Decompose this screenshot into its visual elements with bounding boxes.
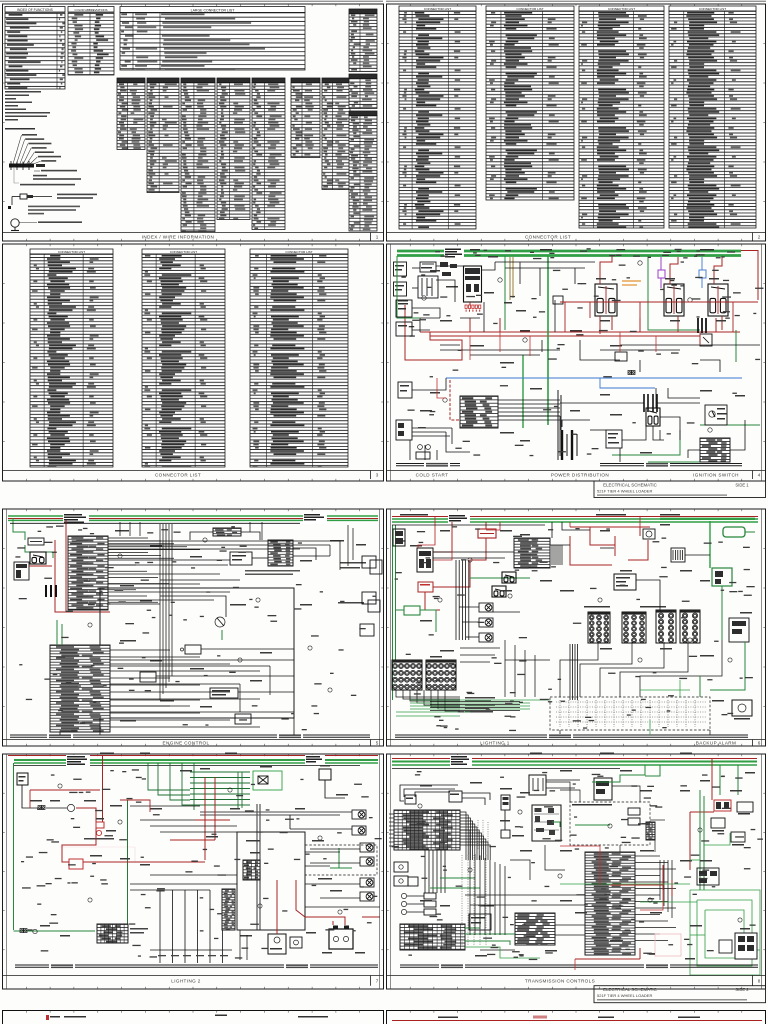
sheet6 extra red loops [418, 517, 640, 560]
connector list table 7 title [250, 249, 348, 254]
dark bundle right of flasher [552, 545, 562, 565]
green wire into dashed box [575, 824, 610, 826]
multi-pin strip top [213, 528, 241, 536]
wire table column 1 body [117, 83, 145, 150]
sheet number box sheet 1 [370, 233, 372, 242]
sheet8 extra green runs [465, 833, 730, 958]
svg-text:CONNECTOR LIST: CONNECTOR LIST [170, 250, 197, 254]
svg-text:CONNECTOR LIST: CONNECTOR LIST [58, 250, 85, 254]
svg-text:7: 7 [376, 978, 379, 983]
relay K3 [708, 284, 728, 316]
svg-text:CONNECTOR LIST: CONNECTOR LIST [699, 7, 726, 11]
sheet border sheet 3 connector list [3, 244, 384, 481]
wire table column 5 body [252, 83, 285, 230]
component box r4 [235, 714, 251, 724]
orange jumper wires [622, 280, 641, 282]
bundle label stack [465, 697, 495, 713]
green bright segment right [660, 518, 755, 520]
connector list table 1 body [399, 11, 476, 229]
red wires relay K1 [600, 256, 612, 284]
relay r6a [502, 572, 516, 583]
svg-text:1: 1 [376, 234, 379, 239]
svg-text:521F TIER 4 WHEEL LOADER: 521F TIER 4 WHEEL LOADER [597, 489, 652, 494]
connector list table 5 title [30, 249, 113, 254]
top-left wire loop pairs sheet8 [400, 785, 490, 805]
right wire table 1 body [349, 14, 377, 72]
red stub to left connector [29, 565, 52, 567]
right stack component [729, 618, 749, 642]
sheet4 mid-left connector boxes [396, 300, 412, 317]
trunk green lower sheet5 [8, 519, 378, 521]
purple component [658, 270, 665, 278]
long wires to box edge [156, 649, 294, 718]
wires out of ECM A right [108, 538, 200, 602]
trunk green double sheet8 [392, 761, 757, 763]
sheet5 trunk drop wires [120, 522, 262, 540]
trunk red sheet7 [8, 755, 378, 757]
connector pair c [628, 371, 635, 375]
svg-text:ENGINE CONTROL: ENGINE CONTROL [163, 740, 210, 745]
capacitor bank symbol [46, 585, 56, 597]
left pin bank B [426, 660, 456, 690]
red vertical 663 [662, 865, 664, 890]
page top edge line [0, 0, 383, 2]
svg-text:SIDE 1: SIDE 1 [735, 483, 749, 488]
sheet8 extra red runs [560, 846, 663, 970]
connector circles column sheet8 [401, 893, 406, 898]
trunk red sheet6 [392, 516, 758, 518]
sheet6 green bottom runs [396, 680, 690, 735]
sheet5 extended ECM-A wires right [108, 541, 340, 600]
striped block sheet8 [400, 924, 465, 950]
bottom sheets ruler ticks [26, 1011, 742, 1013]
sensor symbol right 1 [370, 560, 382, 574]
sheet6 tiny text scatter [395, 526, 755, 731]
table large connector list title [120, 7, 305, 13]
transmission grid matrix [394, 810, 460, 850]
sheet4 extra black wires upper mid [412, 262, 595, 302]
lamp 7a [352, 810, 366, 819]
trunk red sheet8 [392, 758, 757, 760]
green jumper in assembly [552, 822, 560, 827]
wire mesh center [412, 300, 745, 458]
backup alarm component [732, 700, 752, 716]
cold start main connector [464, 266, 482, 302]
staircase bundle sheet8 [460, 812, 490, 860]
connector list table 4 title [669, 6, 756, 11]
cabin panel description title [5, 128, 35, 130]
wire table column 4 header [217, 78, 250, 83]
green component box right [712, 568, 732, 586]
title block side 2 [594, 986, 766, 1003]
red verticals mid sheet7 [204, 777, 206, 860]
footer bar sheet 4 [387, 470, 766, 472]
small boxes in dashed box [628, 808, 640, 815]
wire bundle right of ECU [635, 856, 676, 941]
table large connector list body [120, 13, 305, 71]
green loop box sheet7 [253, 771, 282, 790]
green left verticals sheet6 [392, 525, 394, 700]
buzzer component [643, 529, 655, 539]
right small box sheet8 [719, 940, 732, 953]
ECM block C [50, 645, 110, 732]
trunk label block [444, 248, 464, 258]
connector list table 5 body [30, 254, 113, 467]
sheet4 green feed left [397, 256, 420, 318]
green drop bundle right sheet7 [148, 763, 194, 810]
sheet6 extra top wires [433, 522, 710, 610]
red risers ECM A [65, 536, 67, 612]
relay circle 7 [67, 804, 74, 811]
red relay sheet7 [69, 859, 83, 869]
component reference circles scattered [58, 538, 742, 922]
cab harness big box sheet7 [237, 832, 305, 930]
sheet8 left fan wires [389, 814, 394, 846]
fuse holder cluster [420, 262, 436, 272]
connector leader labels [34, 170, 40, 172]
svg-text:4: 4 [758, 472, 761, 477]
footer bar sheet 1 [3, 232, 384, 234]
svg-text:LIGHTING 2: LIGHTING 2 [171, 978, 201, 983]
sheet border sheet 6 lighting 1 [387, 509, 766, 746]
wires lamps to bus [459, 607, 520, 637]
ignition switch contact block [700, 438, 730, 462]
sheet5 sub-trunk black line [10, 522, 300, 524]
inner margin lines schematic sheets [7, 244, 762, 989]
ground bus right [600, 463, 742, 465]
dotted wires inside harness box [560, 700, 695, 727]
misc short stubs bottom [410, 430, 700, 462]
fuse F1 [28, 538, 44, 545]
wires joining banks to harness [560, 640, 722, 735]
pink outline box sheet8 [655, 934, 681, 956]
blue component [699, 270, 706, 278]
mid component cluster wires [108, 532, 330, 617]
lamp L1 [479, 603, 493, 612]
trunk labels sheet6 [448, 514, 470, 524]
diode block [700, 334, 712, 346]
sheet number box sheet 6 [752, 740, 754, 747]
red horizontal top of ECU [610, 884, 663, 886]
svg-text:3: 3 [376, 472, 379, 477]
switch circle component [215, 617, 225, 627]
bottom left sheet content marks [50, 1015, 328, 1018]
component box r1 [185, 645, 201, 654]
green left vertical sheet7 [13, 763, 15, 930]
svg-text:8: 8 [758, 978, 761, 983]
cabin panel connector symbol [9, 164, 34, 168]
red pin row under connector [465, 305, 481, 308]
trunk labels sheet7 [66, 755, 90, 766]
trunk labels sheet8 [450, 755, 472, 767]
wire table column 3 header [181, 78, 215, 83]
red wires relay sheet7 [62, 852, 69, 862]
red wires relay K2 [670, 257, 678, 284]
footer bar sheet 8 [387, 975, 766, 977]
green risers to block C [56, 620, 58, 645]
sheet5 bottom extra wires [110, 660, 294, 712]
green horizontals sheet8 left [440, 877, 475, 879]
text rows under connector B [245, 570, 300, 575]
gray double bundle [257, 804, 260, 930]
trunk green upper sheet6 [392, 518, 758, 520]
components right of ECU [697, 868, 719, 885]
footer bar sheet 3 [3, 470, 384, 472]
sheet4 red secondary bus right [560, 302, 758, 332]
wire table column 6 header [291, 78, 320, 83]
scatter component b [615, 352, 627, 361]
vertical bundle center sheet6 [570, 644, 578, 700]
sheet7 upper-left red additions [30, 790, 150, 812]
sheet number box sheet 4 [752, 471, 754, 480]
green wires right side down [710, 642, 745, 690]
connector 8a [405, 795, 416, 804]
bottom-left components sheet8 [394, 862, 408, 872]
right wire table 1 header [349, 9, 377, 14]
connector list table 3 title [579, 6, 664, 11]
right wire table 2 header [349, 74, 377, 79]
capacitor pair symbol [644, 394, 657, 412]
lamp connector bank D [680, 610, 700, 643]
flasher component sheet7 [268, 934, 286, 954]
svg-text:521F TIER 4 WHEEL LOADER: 521F TIER 4 WHEEL LOADER [597, 993, 652, 998]
svg-text:POWER DISTRIBUTION: POWER DISTRIBUTION [551, 472, 609, 477]
sheet4 mid horizontal runs [420, 302, 760, 355]
wire table column 2 header [147, 78, 179, 83]
svg-text:TRANSMISSION CONTROLS: TRANSMISSION CONTROLS [525, 978, 595, 983]
red long vertical sheet8 [690, 811, 714, 813]
wire table column 7 body [322, 83, 350, 190]
bottom partial sheet left border [3, 1011, 384, 1024]
left pin bank A [392, 660, 422, 690]
component mid [230, 552, 252, 565]
fan-out wires below left banks [396, 690, 460, 711]
connector list table 2 body [486, 11, 574, 200]
svg-text:CONNECTOR LIST: CONNECTOR LIST [608, 7, 635, 11]
lamp 7e [360, 878, 374, 887]
sheet4 tiny text scatter [401, 248, 763, 456]
svg-text:2: 2 [758, 234, 761, 239]
red jog sheet7 bottom [296, 880, 305, 917]
bottom drop labels [158, 955, 228, 956]
sheet7 bottom collector [150, 907, 380, 960]
flasher module block [514, 538, 550, 568]
right components sheet8 [737, 802, 753, 812]
connector list table 6 body [142, 254, 225, 467]
svg-text:CONNECTOR LIST: CONNECTOR LIST [285, 250, 312, 254]
connector block B [268, 540, 293, 566]
sheet5 right vertical bundle [330, 525, 353, 570]
sheet8 sub-trunk black line [392, 768, 620, 770]
lamp connector bank C [656, 610, 676, 643]
component engine stop [606, 430, 622, 448]
ignition blue wire [446, 377, 742, 379]
sheet number box sheet 7 [370, 976, 372, 986]
relay K4 [646, 408, 660, 426]
wire table column 3 body [181, 83, 215, 232]
wires from cluster to right [498, 400, 560, 420]
tiny labels sheet6 [410, 524, 752, 702]
green bundle rows mid sheet6 [410, 700, 530, 709]
stub risers to ground sheet5 [60, 718, 294, 735]
trunk green thick sheet7 [14, 759, 378, 761]
tiny labels sheet5 [115, 530, 366, 722]
instrument cluster block [460, 396, 498, 428]
green bottom left run [14, 930, 96, 932]
connector pair bottom left [20, 929, 27, 933]
red lower wires sheet8 [575, 958, 640, 960]
relay K2 [664, 284, 684, 316]
olive wires pair [509, 257, 511, 300]
connector list table 2 title [486, 6, 574, 11]
wire table column 4 body [217, 83, 250, 220]
svg-text:IGNITION SWITCH: IGNITION SWITCH [693, 472, 739, 477]
right wire table 3 body [349, 116, 377, 232]
dashed component box sheet8 [570, 802, 650, 845]
green verticals right sheet8 [699, 790, 701, 890]
component in green box [258, 776, 268, 784]
wire table column 5 header [252, 78, 285, 83]
footer bar sheet 6 [387, 739, 766, 741]
red risers to bus [469, 318, 471, 332]
sheet number box sheet 3 [370, 471, 372, 480]
sheet4 battery feed verticals [558, 390, 561, 460]
red fuse small [96, 822, 104, 828]
sheet4 dark bar trio [698, 318, 706, 333]
green right vertical sheet6 [709, 521, 711, 568]
sealed pigtail connector symbol [20, 194, 27, 199]
sheet4 component ref circles [422, 296, 426, 300]
wire table column 1 header [117, 78, 145, 83]
tiny labels sheet8 [420, 770, 755, 960]
green vertical feed 1 [504, 256, 506, 330]
sheet border sheet 1 index/wire information [3, 4, 384, 241]
sheet8 dotted mid bundles [462, 855, 486, 945]
sheet7 center extra wires [130, 806, 340, 890]
bottom right sheet labels [438, 1017, 700, 1019]
sheet5 tiny text scatter [15, 526, 376, 732]
black box right sheet6 [614, 574, 636, 590]
left connector block sheet6 [417, 548, 433, 572]
connector list table 1 title [399, 6, 476, 11]
dashed accessory box sheet7 [305, 845, 377, 875]
svg-text:ELECTRICAL SCHEMATIC: ELECTRICAL SCHEMATIC [603, 987, 657, 992]
wire table column 7 header [322, 78, 350, 83]
table color abbreviations body [68, 13, 114, 75]
component box r2 [140, 672, 156, 682]
vertical bundle mid sheet5 [160, 524, 172, 700]
normally grounded component symbol [11, 219, 19, 227]
relay r6b [492, 586, 506, 597]
sensor symbol right 2 [368, 600, 380, 612]
lamp connector bank A [588, 612, 610, 643]
alternator green box [723, 527, 745, 537]
mid block a sheet8 [515, 913, 555, 945]
svg-text:5: 5 [376, 740, 379, 745]
green ladder mid sheet7 [190, 772, 250, 808]
title block side 1 [594, 481, 766, 498]
left connector C2 [396, 420, 412, 440]
sheet4 bottom-left small parts [418, 445, 423, 450]
sheet border sheet 2 connector list [387, 4, 766, 241]
green vertical in dashed box [338, 848, 340, 868]
sheet border sheet 4 power distribution [387, 244, 766, 481]
red drop right sheet8 [711, 758, 713, 800]
ground bus sheet6 [395, 734, 748, 736]
green path from trunk right sheet8 [592, 765, 645, 782]
svg-text:INDEX / WIRE INFORMATION: INDEX / WIRE INFORMATION [142, 234, 215, 239]
wire table column 2 body [147, 83, 179, 193]
trunk red sheet5 [8, 518, 378, 520]
lamp 7d [360, 857, 374, 866]
sheet number box sheet 5 [370, 740, 372, 747]
black bundle rows mid sheet6 [430, 702, 520, 711]
connector list table 3 body [579, 11, 664, 228]
component box r3 [210, 688, 238, 698]
red dashed switched feed [450, 380, 460, 420]
svg-text:CONNECTOR LIST: CONNECTOR LIST [424, 7, 451, 11]
relay left sheet5 [30, 552, 46, 564]
red loop left [405, 305, 462, 360]
vertical connector strip sheet7 [222, 889, 235, 930]
trunk label blocks sheet5 [63, 513, 89, 524]
table index of functions body [5, 13, 65, 89]
connector list table 4 body [669, 11, 756, 228]
pin strip sheet8 [646, 822, 655, 840]
sheet6 center vertical web [460, 640, 550, 697]
connector list table 6 title [142, 249, 225, 254]
svg-text:INDEX OF FUNCTIONS: INDEX OF FUNCTIONS [17, 8, 54, 12]
trunk green upper sheet5 [8, 515, 378, 517]
ignition switch symbol [705, 405, 727, 425]
assembly block sheet8 [532, 805, 561, 841]
green feed left [13, 518, 25, 540]
green vertical feed 3 [648, 256, 700, 330]
sheet border sheet 8 transmission controls [387, 754, 766, 989]
bottom right sheet red trunk [392, 1020, 762, 1022]
component small bottom [290, 937, 302, 948]
pink wire long [60, 846, 135, 848]
ECU dense block [585, 852, 635, 955]
sheet border sheet 5 engine control [3, 509, 384, 746]
component vlines block [671, 548, 685, 562]
dashed harness box sheet6 [550, 697, 710, 730]
wire red riser from connector [469, 302, 471, 305]
green vertical feed 2 [547, 256, 549, 425]
green wire down from box [721, 586, 723, 640]
scatter component a [553, 296, 563, 304]
red wires battery area [276, 880, 278, 934]
red wires relay K3 [714, 257, 722, 284]
sheet4 upper-left component cluster extra [440, 262, 457, 276]
red relay sheet6 [418, 582, 433, 592]
red wires loop sheet6 [433, 582, 470, 587]
svg-text:CONNECTOR LIST: CONNECTOR LIST [155, 472, 201, 477]
svg-text:CONNECTOR LIST: CONNECTOR LIST [525, 234, 571, 239]
red wire from relay [76, 808, 96, 822]
sheet border sheet 7 lighting 2 [3, 754, 384, 989]
right connector block sheet8 [735, 933, 757, 959]
cabin panel fan-out leader lines [13, 135, 41, 164]
red wire from fuse down [470, 538, 486, 582]
table index of functions title [5, 7, 65, 13]
sensor component 8c [501, 795, 510, 810]
vertical bus sheet6 [456, 560, 469, 640]
trunk dark line sheet7 [14, 765, 360, 767]
long black pair right sheet7 [200, 811, 352, 813]
left connector block [14, 562, 29, 580]
red horizontals mid sheet7 [195, 819, 230, 821]
